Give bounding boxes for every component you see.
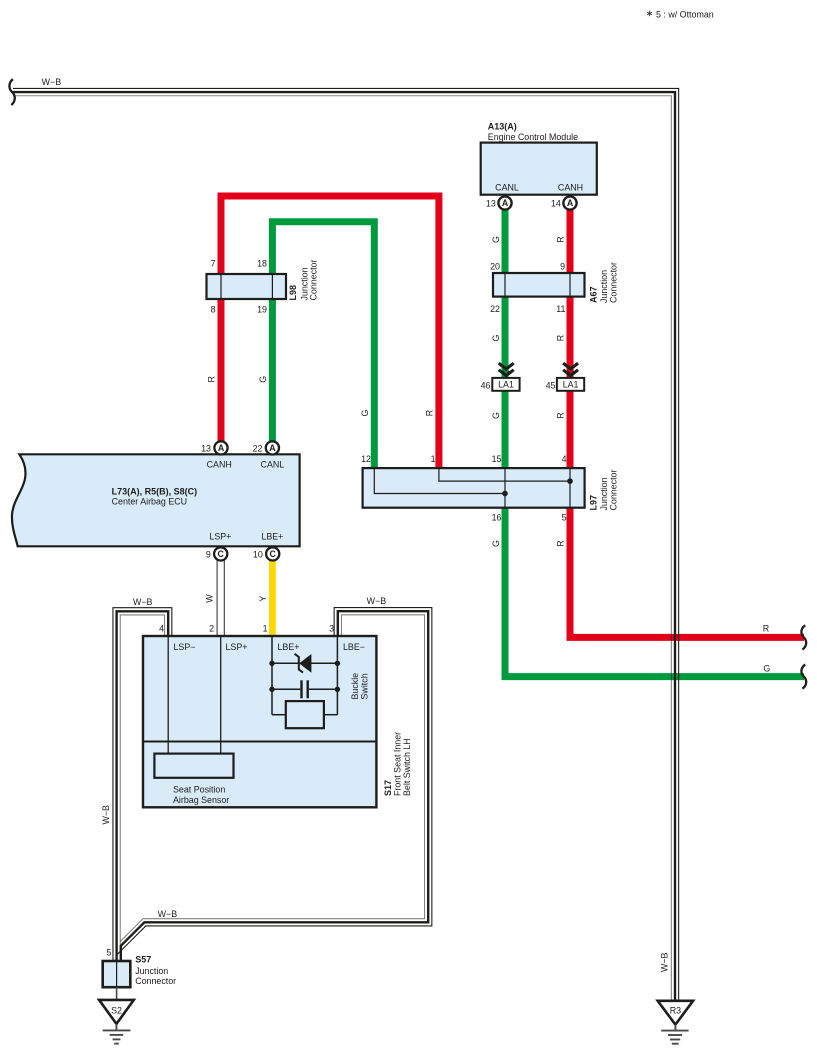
svg-text:LBE−: LBE−: [343, 642, 365, 652]
node: dot capacitor right: [335, 687, 340, 692]
wire: W-B from S17 pin4 up, left, down to S57 pin5: [113, 608, 172, 961]
svg-text:Belt Switch LH: Belt Switch LH: [402, 738, 412, 796]
junction connector L97: [363, 468, 585, 508]
connector LA1 box (46): [492, 378, 519, 391]
svg-text:Seat Position: Seat Position: [173, 785, 225, 795]
svg-text:22: 22: [490, 304, 500, 314]
svg-text:16: 16: [492, 513, 502, 523]
svg-text:1: 1: [431, 454, 436, 464]
wire: green CAN from L98 pin18 up, right, down to L97 pin12: [272, 222, 374, 468]
svg-text:8: 8: [211, 305, 216, 315]
svg-text:L73(A), R5(B), S8(C): L73(A), R5(B), S8(C): [112, 486, 198, 496]
wire: capacitor branch horizontal: [272, 688, 337, 690]
svg-text:LA1: LA1: [563, 380, 579, 390]
label L98 Junction Connector: [288, 260, 319, 301]
wire: yellow Y from ECU pin10 down to S17 pin1: [269, 560, 276, 636]
svg-text:2: 2: [209, 624, 214, 634]
ground symbol under R3: [661, 1025, 688, 1044]
svg-text:10: 10: [253, 550, 263, 560]
svg-text:Junction: Junction: [135, 966, 168, 976]
svg-text:3: 3: [329, 624, 334, 634]
diode: zener in buckle switch: [295, 654, 312, 673]
svg-text:A: A: [502, 198, 509, 208]
capacitor C in buckle switch: [302, 680, 308, 698]
pin 13 connector circle A (ECM CANL): [486, 196, 512, 209]
svg-text:C: C: [218, 549, 225, 559]
svg-text:A: A: [567, 198, 574, 208]
wire: red from L97 pin5 down and right to page edge: [570, 508, 804, 638]
wire: internal from pin2 to seat position sensor: [220, 636, 222, 754]
wire: diode branch horizontal: [272, 662, 337, 664]
svg-text:Engine Control Module: Engine Control Module: [488, 132, 578, 142]
svg-text:4: 4: [159, 624, 164, 634]
svg-text:15: 15: [492, 454, 502, 464]
svg-text:G: G: [491, 236, 501, 243]
svg-text:W−B: W−B: [101, 805, 111, 825]
junction connector A67: [493, 273, 585, 297]
svg-text:R: R: [424, 410, 434, 416]
svg-text:22: 22: [253, 444, 263, 454]
wire: resistor stubs: [272, 714, 337, 716]
svg-text:11: 11: [556, 304, 565, 314]
note: *5 w/ Ottoman asterisk mark: [647, 11, 652, 16]
svg-text:LSP+: LSP+: [226, 642, 248, 652]
svg-text:S17: S17: [383, 780, 393, 796]
svg-text:5: 5: [562, 513, 567, 523]
svg-text:R: R: [763, 624, 769, 634]
connector arrow LA1 green (pin 46): [499, 363, 514, 375]
svg-text:12: 12: [361, 454, 371, 464]
node: dot capacitor left: [269, 687, 274, 692]
svg-text:R: R: [207, 376, 217, 382]
wire: white W from ECU pin9 down to S17 pin2: [217, 560, 224, 636]
svg-text:CANH: CANH: [558, 183, 583, 193]
pin 22 connector circle A (ECU CANL): [253, 441, 279, 454]
svg-text:R3: R3: [670, 1006, 681, 1016]
ground triangle S2: [99, 1000, 134, 1024]
svg-text:G: G: [763, 663, 770, 673]
svg-text:46: 46: [481, 380, 491, 390]
wire break symbol left edge W-B: [9, 79, 14, 105]
svg-text:9: 9: [560, 262, 565, 272]
svg-text:7: 7: [211, 259, 216, 269]
svg-text:Switch: Switch: [360, 673, 370, 699]
svg-text:R: R: [556, 335, 566, 341]
svg-text:G: G: [360, 409, 370, 416]
label S17 Front Seat Inner Belt Switch LH: [383, 732, 412, 796]
svg-text:Connector: Connector: [608, 470, 618, 511]
svg-text:Airbag Sensor: Airbag Sensor: [173, 795, 229, 805]
connector arrow LA1 red (pin 45): [563, 363, 578, 375]
svg-text:CANL: CANL: [261, 459, 285, 469]
node: dot diode left: [269, 661, 274, 666]
wire: red CAN from L98 pin7 up, right, down to L97 pin1: [221, 196, 439, 468]
svg-text:LBE+: LBE+: [261, 531, 283, 541]
svg-text:45: 45: [546, 380, 556, 390]
svg-text:Connector: Connector: [608, 262, 618, 303]
label Buckle Switch: [350, 673, 369, 700]
svg-text:20: 20: [490, 262, 500, 272]
svg-text:W−B: W−B: [133, 597, 153, 607]
svg-text:G: G: [491, 412, 501, 419]
svg-text:W−B: W−B: [158, 909, 178, 919]
wire: red from L98 pin8 down to Center Airbag ECU pin13: [218, 299, 225, 441]
label L97 Junction Connector: [589, 470, 619, 511]
svg-text:S57: S57: [135, 954, 151, 964]
svg-text:Connector: Connector: [309, 260, 319, 301]
svg-text:C: C: [270, 549, 277, 559]
svg-text:L97: L97: [589, 495, 599, 511]
svg-text:CANH: CANH: [207, 459, 232, 469]
wire: internal LBE- vertical from pin3: [336, 636, 338, 715]
node: junction dot L97 red: [567, 478, 573, 484]
svg-text:Connector: Connector: [135, 976, 176, 986]
divider line inside S17: [143, 741, 376, 743]
svg-text:G: G: [258, 376, 268, 383]
pin 13 connector circle A (ECU CANH): [201, 441, 227, 454]
switch S17 Front Seat Inner Belt Switch LH box: [143, 636, 376, 807]
svg-text:14: 14: [551, 198, 561, 208]
svg-text:L98: L98: [288, 285, 298, 301]
wire: W-B main from top-left across and down right side to R3: [13, 88, 679, 1000]
wire: green from L98 pin19 down to Center Airbag ECU pin22: [269, 299, 276, 441]
wire: S57 to S2 ground: [116, 987, 118, 1000]
wire: W-B from S17 pin3 up, right, down, left and diagonal to S57: [117, 608, 432, 961]
svg-text:4: 4: [562, 454, 567, 464]
pin 9 connector circle C (ECU LSP+): [206, 547, 227, 560]
svg-text:A: A: [269, 443, 276, 453]
svg-text:A67: A67: [589, 286, 599, 303]
pin 10 connector circle C (ECU LBE+): [253, 547, 279, 560]
svg-text:G: G: [491, 540, 501, 547]
wire: green from L97 pin16 down and right to page edge: [505, 508, 804, 677]
svg-text:W: W: [205, 594, 215, 603]
junction connector L98: [207, 274, 287, 299]
resistor: buckle switch element box: [286, 701, 324, 728]
svg-text:W−B: W−B: [367, 596, 387, 606]
svg-text:W−B: W−B: [42, 77, 62, 87]
wire: internal from pin4 to seat position sensor: [167, 636, 169, 754]
svg-text:5: 5: [106, 948, 111, 958]
node: dot diode right: [335, 661, 340, 666]
svg-text:S2: S2: [111, 1006, 122, 1016]
label A67 Junction Connector: [589, 262, 619, 303]
svg-text:Center Airbag ECU: Center Airbag ECU: [112, 496, 187, 506]
svg-text:LBE+: LBE+: [278, 642, 300, 652]
svg-text:19: 19: [257, 305, 267, 315]
svg-text:A13(A): A13(A): [488, 121, 517, 131]
svg-text:LSP+: LSP+: [209, 531, 231, 541]
wire break symbol right edge green: [801, 665, 806, 689]
svg-text:Y: Y: [258, 596, 268, 602]
svg-text:9: 9: [206, 550, 211, 560]
wire: green from ECM CANL pin13 down through A67 and LA1 to L97 pin15: [502, 208, 509, 468]
wire: red from ECM CANH pin14 down through A67 and LA1 to L97 pin4: [567, 208, 574, 468]
svg-text:13: 13: [201, 444, 211, 454]
node: junction dot L97 green: [502, 491, 508, 497]
wire: internal LBE+ vertical from pin1: [271, 636, 273, 715]
svg-text:R: R: [556, 540, 566, 546]
pin 14 connector circle A (ECM CANH): [551, 196, 577, 209]
svg-text:R: R: [556, 412, 566, 418]
connector LA1 box (45): [557, 378, 584, 391]
svg-text:13: 13: [486, 198, 496, 208]
svg-text:W−B: W−B: [660, 952, 670, 972]
svg-text:1: 1: [263, 624, 268, 634]
junction connector S57: [103, 961, 131, 987]
svg-text:5 : w/ Ottoman: 5 : w/ Ottoman: [656, 9, 714, 19]
ECU A13(A) Engine Control Module box: [481, 143, 597, 195]
svg-text:CANL: CANL: [495, 183, 519, 193]
label S57 Junction Connector: [135, 954, 176, 986]
svg-text:LA1: LA1: [498, 380, 514, 390]
sensor: Seat Position Airbag Sensor box: [154, 754, 233, 778]
svg-text:18: 18: [257, 259, 267, 269]
wire break symbol right edge red: [801, 625, 806, 649]
svg-text:G: G: [491, 334, 501, 341]
ground triangle R3: [658, 1001, 693, 1025]
svg-text:LSP−: LSP−: [174, 642, 196, 652]
ECU Center Airbag ECU box with torn left edge: [12, 454, 300, 546]
ground symbol under S2: [103, 1024, 131, 1044]
svg-text:A: A: [218, 443, 225, 453]
svg-text:R: R: [556, 236, 566, 242]
